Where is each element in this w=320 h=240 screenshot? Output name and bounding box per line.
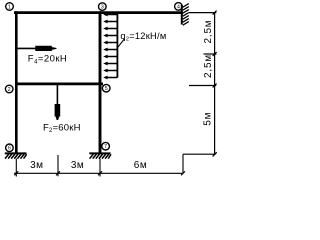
svg-text:5м: 5м (203, 112, 214, 126)
middle beam (frame member) (15, 83, 103, 86)
svg-text:1: 1 (8, 4, 11, 10)
step to right dimension line (183, 152, 217, 156)
top beam (frame member) (14, 11, 183, 14)
bottom-right support hatching (90, 154, 111, 159)
svg-text:3м: 3м (71, 160, 84, 171)
svg-text:F4=20кН: F4=20кН (28, 54, 67, 66)
node 4 circle (top-right support) (175, 3, 183, 11)
distributed load q2 arrows (103, 13, 117, 80)
node 1 circle (top-left) (6, 3, 14, 11)
svg-text:3м: 3м (30, 160, 43, 171)
dimension tick slashes (213, 11, 217, 15)
leader line for q2 label (118, 39, 125, 48)
svg-text:F2=60кН: F2=60кН (43, 122, 81, 134)
left column (frame member) (15, 11, 18, 153)
svg-text:7: 7 (104, 144, 107, 150)
svg-text:6м: 6м (134, 160, 147, 171)
svg-text:4: 4 (177, 4, 180, 10)
right dimension line (189, 11, 217, 157)
bottom-right support ground line (89, 152, 110, 154)
svg-text:6: 6 (8, 146, 11, 152)
middle column (frame member) (99, 11, 102, 153)
svg-text:2,5м: 2,5м (203, 20, 214, 44)
svg-text:2,5м: 2,5м (203, 54, 214, 78)
svg-text:5: 5 (105, 86, 108, 92)
force F4 arrow (18, 47, 37, 49)
svg-text:3: 3 (101, 5, 104, 11)
force F2 arrow (56, 85, 58, 105)
bottom dimension baseline (14, 154, 185, 176)
bottom-left support hatching (5, 154, 27, 159)
top-right roller support post (181, 5, 183, 25)
node 3 circle (top of middle column) (99, 3, 107, 11)
node 2 circle (left of middle beam) (5, 85, 13, 93)
distributed load q2 ladder bar (116, 13, 118, 78)
bottom-left support ground line (5, 152, 27, 154)
node 6 circle (bottom-left support) (6, 144, 14, 152)
svg-text:2: 2 (8, 87, 11, 93)
top-right support hatching (183, 4, 189, 26)
dimension labels (30, 20, 214, 172)
node 5 circle (right end of middle beam) (102, 84, 110, 92)
dimension tick slashes (14, 171, 18, 175)
node 7 circle (bottom-right support) (102, 142, 110, 150)
